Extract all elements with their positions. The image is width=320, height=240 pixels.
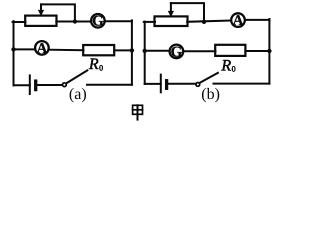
wire: battery to switch (a)	[38, 84, 63, 86]
svg-text:(b): (b)	[201, 86, 220, 103]
wire: G to right vertical (a)	[105, 20, 132, 22]
galvanometer G (b)	[170, 45, 184, 59]
battery (a) long plate	[29, 75, 31, 94]
junction: circuit (b) left node of meter branch	[143, 49, 147, 53]
svg-text:R0: R0	[88, 56, 103, 73]
wire: circuit (b) rheostat to A	[187, 21, 230, 22]
wire: left vertical to ammeter A (a)	[14, 48, 35, 50]
wire: circuit (b) bottom right segment	[214, 83, 270, 85]
rheostat R (b) body	[155, 16, 188, 26]
switch S (a) pivot	[63, 83, 67, 87]
switch S (b) pivot	[196, 83, 200, 87]
wire: circuit (a) bottom right segment	[87, 84, 132, 86]
caption 甲 (figure label)	[133, 105, 143, 119]
wire: left vertical to galvanometer G (b)	[145, 50, 169, 52]
battery (b) long plate	[160, 75, 162, 93]
svg-text:(a): (a)	[69, 86, 87, 103]
ammeter A (b)	[231, 13, 245, 27]
junction: circuit (b) right node of meter branch	[267, 49, 271, 53]
resistor R0 (b) body	[215, 45, 245, 56]
wire: circuit (a) slider top wire	[41, 4, 75, 20]
wire: resistor R0 (a) to right vertical	[114, 49, 132, 51]
wire: circuit (a) left vertical	[13, 21, 15, 85]
junction: circuit (a) slider tap node	[73, 19, 77, 23]
wire: circuit (a) rheostat to G	[56, 21, 90, 23]
wire: circuit (b) slider top wire	[171, 3, 204, 21]
svg-text:G: G	[92, 14, 104, 30]
wire: battery to switch (b)	[168, 83, 196, 85]
rheostat R (b) slider arrow	[170, 3, 172, 10]
junction: circuit (a) right node of meter branch	[130, 48, 134, 52]
rheostat R (a) slider arrow	[40, 4, 42, 11]
svg-text:G: G	[171, 44, 183, 60]
svg-text:R0: R0	[220, 57, 235, 74]
switch S (a) lever	[66, 70, 87, 83]
junction: circuit (b) slider tap node	[202, 20, 206, 24]
wire: circuit (a) rheostat row left segment	[13, 21, 26, 23]
galvanometer G (a)	[91, 14, 105, 28]
rheostat R (a) body	[25, 16, 56, 26]
ammeter A (a)	[35, 41, 49, 55]
svg-text:A: A	[36, 41, 47, 57]
wire: circuit (b) left vertical	[144, 22, 146, 84]
svg-text:A: A	[233, 13, 244, 29]
wire: resistor R0 (b) to right vertical	[245, 50, 269, 52]
wire: G to resistor R0 (b)	[184, 50, 216, 52]
resistor R0 (a) body	[83, 45, 114, 55]
battery (b) short plate	[165, 81, 168, 89]
wire: circuit (a) right vertical	[131, 20, 133, 84]
wire: circuit (b) bottom left segment	[145, 83, 161, 85]
wire: A to resistor R0 (a)	[49, 49, 84, 52]
wire: A to right vertical (b)	[245, 19, 269, 21]
wire: circuit (a) bottom left segment	[14, 84, 30, 86]
battery (a) short plate	[34, 81, 37, 90]
switch S (b) lever	[200, 73, 218, 83]
junction: circuit (a) left node of meter branch	[11, 47, 15, 51]
wire: circuit (b) rheostat row left segment	[144, 21, 155, 23]
wire: circuit (b) right vertical	[268, 19, 270, 84]
